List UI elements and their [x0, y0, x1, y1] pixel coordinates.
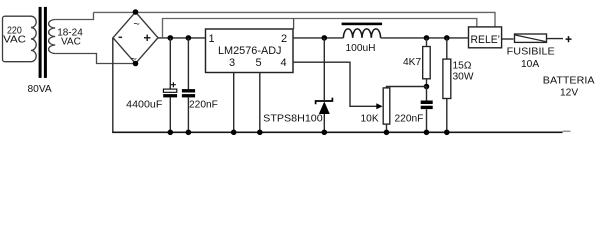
svg-text:1: 1 [209, 33, 215, 45]
svg-text:STPS8H100: STPS8H100 [263, 113, 323, 124]
node ground pot [384, 130, 390, 136]
node ground pin5 [257, 130, 263, 136]
potentiometer R2 10K [383, 88, 390, 124]
wire fuse to battery plus [547, 38, 564, 40]
resistor R3 15ohm 30W [446, 38, 448, 59]
svg-text:10K: 10K [361, 113, 379, 124]
svg-text:100uH: 100uH [346, 43, 376, 54]
inductor L1 core bar [342, 23, 383, 26]
bridge polarity marks [130, 19, 139, 66]
svg-text:220nF: 220nF [189, 100, 218, 111]
relay K1 box [469, 27, 502, 48]
wire pin 5 to ground [259, 73, 261, 133]
label 18-24 VAC [57, 28, 83, 48]
svg-text:30W: 30W [453, 71, 474, 82]
svg-text:VAC: VAC [3, 35, 26, 46]
svg-text:10A: 10A [521, 59, 539, 70]
node ground pin3 [231, 130, 237, 136]
label 220 VAC [3, 25, 26, 45]
wiper arrow [376, 103, 382, 109]
transformer T1 core [39, 7, 42, 78]
capacitor C3 220nF [426, 87, 428, 101]
wire pin 4 feedback to pot wiper [293, 62, 377, 106]
node ground C3 [424, 130, 430, 136]
node diode D2 top [322, 35, 328, 41]
battery minus terminal [563, 130, 571, 132]
svg-text:4: 4 [281, 57, 287, 69]
svg-text:3: 3 [229, 57, 235, 69]
svg-text:2: 2 [281, 33, 287, 45]
wire pin 3 to ground [233, 73, 235, 133]
svg-text:BATTERIA: BATTERIA [543, 76, 595, 87]
wire secondary top to AC top rail [55, 12, 93, 19]
wire relay to fuse [502, 38, 514, 40]
svg-text:12V: 12V [560, 88, 578, 99]
svg-text:220nF: 220nF [395, 113, 424, 124]
transformer T1 secondary winding [49, 20, 56, 54]
diode D2 STPS8H100 [323, 38, 325, 100]
svg-text:4K7: 4K7 [403, 57, 421, 68]
capacitor C2 220nF [187, 38, 189, 89]
source V1 220VAC box [3, 16, 32, 62]
node bridge AC top junction [133, 9, 139, 15]
wire top rail (AC) to relay [94, 12, 496, 27]
inductor L1 100uH [343, 29, 380, 38]
wire bridge minus to ground rail [112, 38, 114, 133]
wire Vin rail over IC to relay [163, 19, 477, 38]
wire stub rail2 to IC corner [293, 19, 295, 30]
resistor R1 4K7 [426, 38, 428, 47]
svg-text:FUSIBILE: FUSIBILE [507, 46, 555, 57]
svg-text:15Ω: 15Ω [453, 60, 472, 71]
svg-text:RELE’: RELE’ [471, 34, 501, 46]
node ground C1 [168, 130, 174, 136]
wire feedback node to pot top [387, 87, 427, 88]
wire secondary bottom to bridge bottom corner [55, 54, 135, 64]
wire inductor to relay [381, 37, 469, 39]
node Vin cap C1 [168, 35, 174, 41]
node 15ohm top [444, 35, 450, 41]
svg-text:~: ~ [133, 19, 139, 31]
node Vin cap C2 [186, 35, 192, 41]
capacitor C1 4400uF [169, 38, 171, 89]
node ground C2 [186, 130, 192, 136]
bridge rectifier D1 [113, 12, 158, 64]
node bridge AC bottom junction [133, 61, 139, 67]
svg-text:4400uF: 4400uF [126, 99, 162, 110]
node ground diode [322, 130, 328, 136]
battery plus terminal [566, 36, 572, 42]
op-amp U1 LM2576-ADJ box [206, 29, 294, 73]
svg-text:VAC: VAC [61, 37, 81, 48]
wire bridge plus to pin 1 [158, 37, 206, 39]
node 4K7 top [424, 35, 430, 41]
svg-text:80VA: 80VA [28, 84, 52, 95]
svg-text:LM2576-ADJ: LM2576-ADJ [218, 45, 282, 57]
svg-text:5: 5 [256, 57, 262, 69]
wire pin 2 output [293, 37, 343, 39]
wire ground bottom rail [112, 131, 562, 133]
transformer T1 primary winding [31, 16, 36, 62]
node feedback [424, 84, 430, 90]
polarity plus of C1 [171, 82, 176, 87]
fuse F1 [515, 34, 547, 42]
node ground R3 [444, 130, 450, 136]
